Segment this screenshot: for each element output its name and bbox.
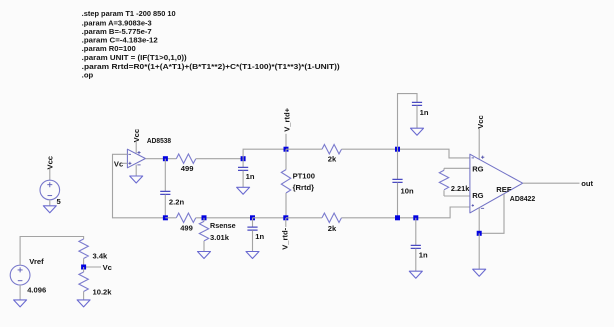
node label V_rtd- bbox=[281, 227, 290, 249]
svg-text:.param B=-5.775e-7: .param B=-5.775e-7 bbox=[82, 29, 152, 36]
wire Vcc label to U2 V+ pin bbox=[478, 129, 480, 160]
junction A2 (2.2n bottom on rail) bbox=[163, 215, 168, 220]
junction G (C3 top) bbox=[250, 215, 255, 220]
ground (below C3) bbox=[246, 252, 259, 259]
wire junction to ground bbox=[478, 233, 480, 269]
wire Vc label to +input bbox=[122, 162, 128, 164]
junction I (C4 top) bbox=[413, 215, 418, 220]
wire rail A2 to 499 bottom bbox=[165, 217, 176, 219]
resistor R4 499 (bottom) bbox=[176, 213, 195, 222]
wire RG top pin bbox=[444, 167, 470, 169]
resistor R3 2k (top) bbox=[322, 145, 341, 154]
node Vcc (label at op-amp U1) bbox=[132, 129, 141, 143]
resistor R2 PT100 {Rrtd} bbox=[281, 149, 290, 218]
pin label REF bbox=[496, 185, 512, 194]
svg-text:2.21k: 2.21k bbox=[451, 184, 470, 193]
wire Vref bottom to ground bbox=[19, 285, 21, 300]
wire rail H to 2k bottom bbox=[286, 217, 322, 219]
op-amp U1 AD8538 bbox=[127, 149, 145, 168]
node label Vc bbox=[103, 263, 112, 272]
svg-text:Vref: Vref bbox=[29, 257, 44, 266]
svg-text:.param Rrtd=R0*(1+(A*T1)+(B*T1: .param Rrtd=R0*(1+(A*T1)+(B*T1**2)+C*(T1… bbox=[82, 64, 340, 71]
junction F (Rsense top) bbox=[202, 215, 207, 220]
junction E (10n bottom) bbox=[395, 215, 400, 220]
wire V_rtd+ label stub bbox=[285, 134, 287, 149]
wire node Vc stub right bbox=[84, 266, 101, 268]
wire 2k to junction D and on to in-amp jog bbox=[342, 149, 470, 158]
pin label RG (top) bbox=[472, 165, 483, 174]
pin label RG (bottom) bbox=[472, 191, 483, 200]
svg-text:499: 499 bbox=[180, 224, 193, 233]
svg-text:1n: 1n bbox=[419, 251, 428, 260]
svg-text:3.4k: 3.4k bbox=[93, 252, 109, 261]
svg-text:out: out bbox=[581, 179, 593, 188]
value label 2k (top) bbox=[328, 154, 337, 163]
ground (below C1) bbox=[237, 187, 250, 194]
part label Rsense bbox=[210, 221, 236, 230]
resistor R6 10.2k bbox=[79, 272, 88, 291]
node Vcc (label at in-amp U2) bbox=[476, 115, 485, 129]
junction REF/V- bbox=[477, 231, 482, 236]
capacitor C5 1n (top right) bbox=[412, 102, 422, 128]
svg-text:10.2k: 10.2k bbox=[93, 287, 113, 296]
wire U1 output to junction A bbox=[145, 158, 176, 160]
resistor R7 Rsense 3.01k bbox=[199, 218, 208, 252]
value label 499 (top) bbox=[181, 164, 194, 173]
value label {Rrtd} bbox=[293, 183, 315, 192]
wire U2 V- pin down to REF junction bbox=[478, 208, 480, 234]
capacitor C1 1n (below junction B) bbox=[238, 159, 248, 188]
resistor R1 499 (top) bbox=[176, 154, 195, 163]
svg-text:10n: 10n bbox=[401, 186, 414, 195]
svg-text:.op: .op bbox=[82, 72, 94, 79]
value label 499 (bottom) bbox=[180, 224, 193, 233]
value label 10.2k bbox=[93, 287, 113, 296]
capacitor C2 2.2n bbox=[160, 159, 170, 218]
svg-text:3.01k: 3.01k bbox=[210, 233, 230, 242]
value label 5 bbox=[57, 197, 62, 206]
value label 2k (bottom) bbox=[328, 224, 337, 233]
ground (below U2) bbox=[473, 269, 486, 276]
svg-text:V_rtd+: V_rtd+ bbox=[282, 107, 291, 131]
wire REF pin down and left bbox=[479, 194, 504, 234]
node label Vc (at U1 +input) bbox=[114, 160, 123, 169]
svg-text:.param A=3.9083e-3: .param A=3.9083e-3 bbox=[82, 20, 152, 27]
part label AD8422 bbox=[510, 194, 536, 203]
junction D (10n top / RC to 1n) bbox=[395, 147, 400, 152]
node Vcc (label at source V2) bbox=[46, 156, 55, 170]
junction A (U1 out / 2.2n top) bbox=[163, 156, 168, 161]
in-amp U2 AD8422 bbox=[470, 154, 523, 213]
value 4.096 bbox=[27, 285, 46, 294]
resistor R8 2k (bottom) bbox=[322, 213, 341, 222]
svg-text:2k: 2k bbox=[328, 224, 337, 233]
part label PT100 bbox=[293, 171, 315, 180]
wire Vcc label to source top bbox=[49, 169, 51, 180]
ground (below C4) bbox=[409, 271, 422, 278]
node label out bbox=[581, 179, 593, 188]
part label AD8538 bbox=[147, 136, 171, 145]
wire Vref top up and right to divider bbox=[20, 237, 84, 266]
svg-text:REF: REF bbox=[496, 185, 512, 194]
svg-text:Vc: Vc bbox=[103, 263, 112, 272]
label Vref bbox=[29, 257, 44, 266]
wire 499 to junction B bbox=[196, 158, 243, 160]
resistor R9 2.21k (gain set) bbox=[439, 168, 448, 196]
wire op-amp V- pin to ground bbox=[135, 165, 137, 176]
voltage source V2 (Vcc, 5V) bbox=[40, 180, 60, 200]
wire V_rtd- label stub bbox=[285, 218, 287, 227]
svg-text:AD8538: AD8538 bbox=[147, 136, 171, 145]
junction B (499 / 1n / jog up) bbox=[241, 156, 246, 161]
svg-text:499: 499 bbox=[181, 164, 194, 173]
svg-text:1n: 1n bbox=[255, 232, 264, 241]
svg-text:.step param T1 -200 850 10: .step param T1 -200 850 10 bbox=[82, 11, 176, 18]
svg-text:.param C=-4.183e-12: .param C=-4.183e-12 bbox=[82, 38, 158, 45]
wire source bottom to ground bbox=[49, 200, 51, 206]
svg-text:Vc: Vc bbox=[114, 160, 123, 169]
wire RG bottom pin bbox=[444, 195, 470, 197]
svg-text:V_rtd-: V_rtd- bbox=[281, 227, 290, 249]
svg-text:.param R0=100: .param R0=100 bbox=[82, 46, 136, 53]
wire jog up from junction B to top rail bbox=[243, 149, 286, 159]
svg-text:5: 5 bbox=[57, 197, 62, 206]
svg-text:2.2n: 2.2n bbox=[169, 197, 185, 206]
wire Vc to 10.2k bbox=[83, 267, 85, 272]
wire junction D up and right to C5 bbox=[398, 94, 418, 150]
value label 2.21k bbox=[451, 184, 470, 193]
value label 2.2n bbox=[169, 197, 185, 206]
svg-text:.param UNIT = (IF(T1>0,1,0)): .param UNIT = (IF(T1>0,1,0)) bbox=[82, 55, 187, 62]
wire top rail junction C to 2k bbox=[286, 148, 322, 150]
wire 10.2k to ground bbox=[83, 292, 85, 300]
svg-text:4.096: 4.096 bbox=[27, 285, 46, 294]
wire U2 output to out bbox=[523, 182, 580, 184]
svg-text:RG: RG bbox=[472, 191, 483, 200]
capacitor C6 10n bbox=[392, 149, 402, 218]
value label 3.01k bbox=[210, 233, 230, 242]
capacitor C3 1n (bottom mid) bbox=[247, 218, 257, 252]
svg-text:1n: 1n bbox=[420, 108, 429, 117]
ground (below V2) bbox=[43, 206, 56, 213]
value label 10n bbox=[401, 186, 414, 195]
ground (below U1) bbox=[130, 176, 143, 183]
ground (below divider) bbox=[77, 300, 90, 307]
node label V_rtd+ bbox=[282, 107, 291, 131]
capacitor C4 1n (bottom right) bbox=[411, 218, 421, 271]
svg-text:2k: 2k bbox=[328, 154, 337, 163]
svg-text:Rsense: Rsense bbox=[210, 221, 236, 230]
svg-text:1n: 1n bbox=[246, 172, 255, 181]
ground (below Rsense) bbox=[198, 252, 211, 259]
svg-text:Vcc: Vcc bbox=[476, 115, 485, 129]
junction C (top of PT100) bbox=[284, 147, 289, 152]
svg-text:RG: RG bbox=[472, 165, 483, 174]
ground (below C5) bbox=[411, 128, 424, 135]
svg-text:Vcc: Vcc bbox=[132, 129, 141, 143]
svg-text:AD8422: AD8422 bbox=[510, 194, 536, 203]
ground (below V1) bbox=[14, 300, 27, 307]
value label 3.4k bbox=[93, 252, 109, 261]
wire 3.4k to node Vc bbox=[83, 259, 85, 268]
wire 2k to junction E, I and jog up to in-amp bbox=[342, 207, 470, 218]
wire rail G to H bbox=[253, 217, 287, 219]
resistor R5 3.4k bbox=[79, 239, 88, 259]
wire 499 to junction F bbox=[196, 217, 253, 219]
junction node Vc bbox=[81, 265, 86, 270]
value label 1n (C4) bbox=[419, 251, 428, 260]
svg-text:Vcc: Vcc bbox=[46, 156, 55, 170]
voltage source V1 (Vref 4.096) bbox=[10, 265, 30, 285]
junction H (PT100 bottom) bbox=[283, 215, 288, 220]
svg-text:PT100: PT100 bbox=[293, 171, 315, 180]
value label 1n (C1) bbox=[246, 172, 255, 181]
svg-text:{Rrtd}: {Rrtd} bbox=[293, 183, 315, 192]
value label 1n (C5) bbox=[420, 108, 429, 117]
value label 1n (C3) bbox=[255, 232, 264, 241]
wire feedback: -input left, down, right to bottom rail bbox=[113, 154, 166, 218]
wire Vcc label to op-amp V+ pin bbox=[135, 142, 137, 153]
